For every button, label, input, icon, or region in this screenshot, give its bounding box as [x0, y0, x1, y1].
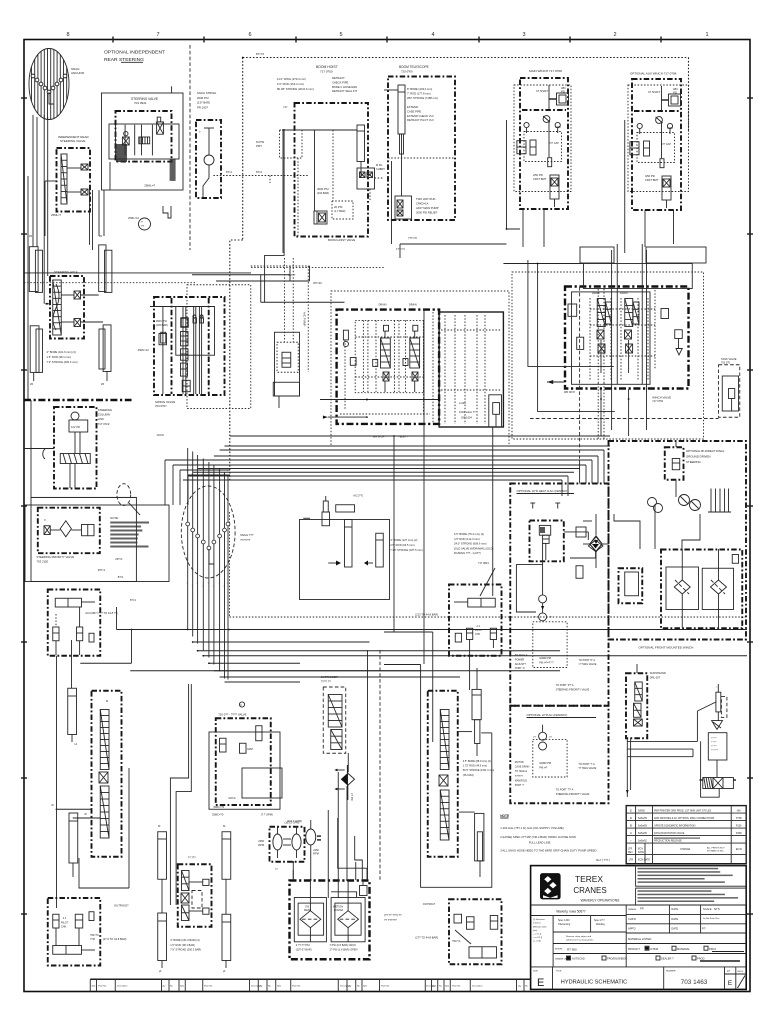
svg-text:Ref: [ ??? ]: Ref: [ ??? ] [596, 858, 610, 862]
svg-text:Sym: Sym [277, 986, 281, 988]
svg-text:MODEL: MODEL [555, 949, 564, 951]
front winch divider [609, 639, 747, 641]
aux winch dotted envelope [628, 85, 689, 192]
svg-text:2 [HOSE] SPEC 2?? MP (?40.2: 2 [HOSE] SPEC 2?? MP (?40.2 BAR) ORIFIC … [500, 835, 576, 839]
optional hyd heat ac envelope [510, 484, 608, 706]
holding valve column [92, 691, 122, 857]
svg-text:BY HAND IS INC: BY HAND IS INC [707, 850, 724, 853]
svg-text:717 0?60: 717 0?60 [652, 399, 663, 403]
svg-text:PROJ: PROJ [709, 947, 717, 951]
boom hoist cylinder [280, 125, 365, 253]
heater T symbols [530, 503, 560, 509]
svg-text:2: 2 [613, 32, 616, 38]
winch valve bank box [565, 264, 692, 389]
telescope lock valve [395, 196, 412, 219]
svg-text:703 0?5: 703 0?5 [721, 362, 731, 365]
wire steering cylinder feed lines [28, 115, 48, 400]
svg-text:4" BORE (101.6 mm) (2): 4" BORE (101.6 mm) (2) [47, 350, 76, 354]
svg-text:Spec 27.?: Spec 27.? [594, 919, 605, 922]
svg-text:LTR: LTR [628, 849, 633, 851]
svg-text:A: A [630, 831, 632, 835]
svg-text:?: ? [218, 583, 219, 585]
note rows block [110, 516, 149, 561]
svg-text:EXTEND CHECK VLV: EXTEND CHECK VLV [407, 114, 434, 118]
accumulator charge valve group [48, 590, 101, 656]
svg-text:Sym: Sym [363, 986, 367, 988]
svg-text:717 0821: 717 0821 [478, 561, 489, 565]
boom telescope label [399, 65, 429, 74]
svg-text:DEALER ?: DEALER ? [661, 957, 674, 961]
front winch wires [626, 702, 719, 797]
svg-text:(35-0164): (35-0164) [463, 774, 474, 777]
zone numbers top [66, 32, 708, 38]
wire bundle turnouts lower [188, 630, 747, 683]
svg-text:PM: #?: PM: #? [539, 766, 548, 769]
title block left info grid [531, 916, 747, 967]
title OPTIONAL INDEPENDENT REAR STEERING [104, 50, 165, 64]
svg-text:MANIFOLD: MANIFOLD [515, 779, 528, 782]
svg-text:ADJ? MAIN PUMP: ADJ? MAIN PUMP [416, 206, 439, 210]
svg-text:7.38" STROKE (187.5 mm): 7.38" STROKE (187.5 mm) [390, 548, 423, 552]
rear lockout labels [90, 904, 129, 942]
steering column link group [54, 407, 97, 489]
svg-text:DATE: DATE [671, 917, 678, 921]
svg-text:[OLD VALVE W/DRAWAL] (OLD): [OLD VALVE W/DRAWAL] (OLD) [454, 546, 494, 550]
wire front stabilizer [421, 665, 492, 888]
telescope cylinder [384, 85, 405, 196]
svg-text:5: 5 [339, 32, 342, 38]
svg-text:P126: P126 [736, 824, 742, 827]
front winch control valve [626, 664, 647, 738]
svg-text:NTS: NTS [714, 907, 720, 911]
hyd ac orifice dotted box [533, 739, 567, 777]
svg-text:+- x 0.01 []: +- x 0.01 [] [533, 937, 542, 939]
boom hoist group envelope [295, 103, 369, 237]
svg-text:77M: 77M [90, 938, 95, 941]
svg-text:80.38" STROKE (2041.6 mm): 80.38" STROKE (2041.6 mm) [277, 87, 314, 91]
svg-text:5w5w92: 5w5w92 [638, 839, 647, 842]
svg-text:1?T=?1: 1?T=?1 [396, 247, 405, 251]
svg-text:No.: No. [170, 986, 174, 988]
svg-text:KOMNA: KOMNA [334, 909, 344, 912]
svg-text:I/R: I/R [101, 383, 104, 386]
svg-text:(10?-2? BAR): (10?-2? BAR) [296, 948, 312, 952]
svg-text:RAISING ??? - (LAT?): RAISING ??? - (LAT?) [454, 551, 481, 555]
winch valve section 1 [597, 299, 612, 374]
svg-text:Plate No.: Plate No. [292, 985, 301, 988]
svg-text:?: ? [192, 474, 193, 476]
svg-text:?: ? [208, 471, 209, 473]
winch bank internal risers [580, 244, 655, 460]
svg-text:No.: No. [357, 986, 361, 988]
svg-text:1 200 GAL (757.1 ltr) GAL [O: 1 200 GAL (757.1 ltr) GAL [OIL SUPPLY VO… [500, 826, 563, 830]
dashed separator line left section [189, 45, 191, 250]
svg-text:?: ? [213, 474, 214, 476]
svg-text:NOTE:: NOTE: [110, 516, 119, 520]
svg-text:REV: REV [628, 852, 633, 854]
svg-text:RT630: RT630 [651, 947, 659, 951]
svg-text:MATERIAL LISTED: MATERIAL LISTED [628, 937, 651, 941]
svg-text:PER PRINTER ORD PROD. LST NNN: PER PRINTER ORD PROD. LST NNN UNIT STYLE… [654, 809, 712, 812]
svg-text:C.BR: C.BR [667, 127, 673, 130]
hydraulic tank envelope [290, 881, 370, 960]
svg-text:DATE: DATE [638, 851, 644, 854]
svg-text:PILOT: PILOT [61, 922, 69, 925]
svg-text:NOTE: NOTE [500, 814, 509, 818]
svg-text:ALL PRINTS NOT: ALL PRINTS NOT [707, 847, 725, 850]
svg-text:TO TELE &: TO TELE & [515, 654, 528, 657]
svg-text:CASE DRAIN: CASE DRAIN [515, 766, 530, 769]
svg-text:STEERING AXLE: STEERING AXLE [54, 270, 78, 274]
svg-text:APP'D: APP'D [628, 927, 636, 931]
heat ac supply valve [530, 521, 564, 562]
pilot port labels [213, 140, 309, 183]
svg-text:N/A: N/A [737, 809, 741, 812]
accumulator snag string [196, 120, 221, 198]
svg-text:Waverly, Iowa 50677: Waverly, Iowa 50677 [556, 910, 586, 914]
svg-text:CHECK PIPE: CHECK PIPE [332, 80, 348, 84]
beam lock valve group [178, 856, 212, 927]
svg-text:TO TELE &: TO TELE & [515, 770, 528, 773]
svg-text:12V OR: 12V OR [71, 426, 80, 429]
dashed tank riser [379, 650, 381, 881]
svg-text:BORE C HOSE END: BORE C HOSE END [332, 85, 357, 89]
heat circulation circles [516, 543, 552, 621]
svg-text:7 PSI (0.5 BAR) CRCK: 7 PSI (0.5 BAR) CRCK [330, 943, 357, 947]
svg-text:Description: Description [472, 985, 483, 988]
svg-text:24.0" STROKE (609.6 mm): 24.0" STROKE (609.6 mm) [454, 542, 487, 546]
pilot line trunk dashed [230, 52, 689, 480]
steering valve feed risers [90, 190, 93, 250]
wire riser left group [99, 162, 110, 236]
svg-text:717 0722: 717 0722 [98, 422, 110, 426]
svg-text:1500 PSI: 1500 PSI [156, 319, 167, 323]
tank inlet staircase wires [317, 818, 367, 898]
svg-text:LTR: LTR [629, 859, 634, 862]
svg-text:ECN: ECN [638, 849, 643, 851]
inlet compensator [343, 330, 408, 366]
svg-text:DRAIN: DRAIN [409, 304, 417, 307]
svg-text:P?: P? [702, 927, 706, 931]
svg-text:4/50 PSI: 4/50 PSI [645, 174, 655, 178]
svg-text:=? SWG VALVE: =? SWG VALVE [579, 663, 597, 666]
svg-text:BOOM HOIST: BOOM HOIST [316, 65, 338, 69]
ac pump small fitting [323, 494, 363, 513]
svg-text:7" ROD (177.8 mm): 7" ROD (177.8 mm) [407, 92, 431, 96]
steering cylinder left upper [29, 235, 43, 292]
front winch directional spool [700, 778, 737, 789]
svg-text:[CHG] BI-ROTATION VALVE: [CHG] BI-ROTATION VALVE [654, 832, 685, 835]
svg-text:?: ? [227, 583, 228, 585]
svg-text:CHK: CHK [475, 633, 481, 636]
gauge ellipse dashed [117, 484, 140, 515]
svg-text:I/R: I/R [99, 235, 102, 238]
pilot dotted risers [285, 258, 323, 372]
hyd ac motor case text [515, 761, 597, 796]
wire steering column feeds [24, 400, 136, 497]
front axle lockout lower group [415, 899, 501, 964]
svg-text:A: A [240, 703, 242, 707]
svg-text:D: D [630, 816, 632, 820]
main outlet dotted lines [441, 315, 501, 424]
svg-text:Sym: Sym [92, 986, 96, 988]
svg-text:OPTIONAL INDEPENDENT: OPTIONAL INDEPENDENT [104, 50, 165, 56]
boom hoist label [316, 65, 338, 74]
main valve labels [373, 304, 476, 439]
winch valve section 2 [625, 299, 640, 374]
svg-text:8: 8 [66, 32, 69, 38]
svg-text:AUTOCAD: AUTOCAD [572, 957, 585, 961]
main control valve bank [337, 310, 504, 427]
title block legal text [636, 866, 747, 905]
swing valve dotted envelope [187, 285, 251, 409]
svg-text:NUMBER: NUMBER [666, 971, 676, 973]
svg-text:Millimeter within: Millimeter within [533, 925, 546, 928]
bi-directional steer valve [665, 440, 684, 497]
svg-text:(2) Dimension: (2) Dimension [533, 919, 545, 921]
oil cooler bypass block [357, 163, 385, 200]
svg-text:200 1004: 200 1004 [461, 416, 472, 420]
winch return wires [400, 120, 706, 263]
svg-text:6: 6 [248, 32, 251, 38]
svg-text:PRODUCT: PRODUCT [628, 948, 640, 951]
svg-text:E: E [630, 808, 632, 812]
winch inlet block [661, 309, 682, 356]
svg-text:??-???: ??-??? [711, 750, 719, 752]
svg-text:ACCUM? (??? TO 44.8 ??): ACCUM? (??? TO 44.8 ??) [85, 611, 118, 615]
svg-text:WR WCH: WR WCH [373, 435, 385, 439]
svg-text:2 ??-?? PSI: 2 ??-?? PSI [296, 943, 310, 947]
svg-text:DRAIN: DRAIN [620, 292, 628, 295]
svg-text:ADD WINCHES & AC OPTIONS, MISC: ADD WINCHES & AC OPTIONS, MISC CORRECTIO… [654, 817, 715, 820]
svg-text:[mm]: [mm] [533, 930, 538, 932]
svg-text:DRAWN ON: DRAWN ON [555, 958, 567, 961]
svg-text:4/50 PSI: 4/50 PSI [533, 173, 543, 177]
svg-text:E: E [728, 980, 732, 987]
steering cylinder right upper [99, 235, 112, 292]
svg-text:4" BORE (101.6 BAR) (4): 4" BORE (101.6 BAR) (4) [170, 938, 199, 942]
svg-text:MAIN WINCH 717 0?08: MAIN WINCH 717 0?08 [529, 69, 562, 73]
svg-text:PR: PR [640, 907, 644, 911]
svg-text:Plate No.: Plate No. [204, 985, 213, 988]
snag anchor circle (hatched) [29, 49, 85, 120]
front stabilizer valve column [428, 691, 458, 857]
svg-text:CRKT BMT: CRKT BMT [533, 177, 547, 181]
svg-text:??????: ?????? [515, 775, 524, 778]
heat ac check diamond [564, 532, 603, 558]
wire bundle right drops [562, 450, 604, 496]
svg-text:59.5" STROKE (1511.3 mm): 59.5" STROKE (1511.3 mm) [463, 769, 495, 772]
wire outrigger interconnect [51, 768, 129, 888]
svg-text:283" STROKE (7188 mm): 283" STROKE (7188 mm) [407, 96, 438, 100]
svg-text:STEERING PRIORITY VALVE: STEERING PRIORITY VALVE [556, 689, 590, 692]
svg-text:DATE: DATE [671, 907, 678, 911]
pressure gauge circle [128, 216, 151, 230]
svg-text:?: ? [196, 471, 197, 473]
main valve bank wires [320, 399, 440, 419]
svg-text:OUTRIGGER: OUTRIGGER [321, 675, 338, 679]
svg-text:PR 100?: PR 100? [197, 105, 208, 109]
svg-text:EXTEND:: EXTEND: [407, 105, 419, 109]
terex logo [540, 873, 561, 899]
svg-text:CRKD=1A: CRKD=1A [416, 202, 429, 206]
heat ac port text [515, 654, 597, 692]
svg-text:OPTIONAL HYD AC (FENWAY): OPTIONAL HYD AC (FENWAY) [527, 713, 568, 717]
svg-text:MOTOR: MOTOR [515, 761, 524, 764]
svg-text:MATERIAL: MATERIAL [677, 947, 690, 951]
svg-text:PORT 'A': PORT 'A' [515, 667, 526, 670]
return dashed line [530, 418, 719, 420]
title bottom row [533, 967, 746, 990]
svg-text:8T=4: 8T=4 [256, 170, 263, 174]
axle lockout leader [415, 568, 495, 617]
front winch motor box [708, 733, 727, 760]
svg-text:M FIL: M FIL [376, 163, 383, 167]
svg-text:splinter burrs & sharp plates: splinter burrs & sharp plates [566, 939, 594, 942]
svg-text:5/9/95: 5/9/95 [638, 809, 645, 812]
independent rear steering valve [45, 135, 90, 236]
svg-text:2000 PSI RELIEF: 2000 PSI RELIEF [416, 211, 438, 215]
svg-text:2? PSI (1.6 BAR) OPEN: 2? PSI (1.6 BAR) OPEN [330, 948, 358, 952]
svg-text:?: ? [192, 586, 193, 588]
filter group envelope [661, 550, 742, 629]
main valve section 2 [410, 325, 420, 392]
svg-text:P?08: P?08 [736, 817, 742, 820]
bi-directional steering envelope [609, 441, 747, 640]
svg-text:OPTIONAL HYD HEAT & AC (FENWAY: OPTIONAL HYD HEAT & AC (FENWAY) [517, 489, 569, 493]
svg-text:???????: ??????? [240, 538, 251, 542]
svg-text:6.0" ROD (152.4 mm): 6.0" ROD (152.4 mm) [277, 82, 304, 86]
svg-text:TO PORT '?' A: TO PORT '?' A [579, 763, 596, 766]
filter box left [666, 549, 699, 628]
check valve bold [334, 765, 354, 801]
svg-text:100w valve ??: 100w valve ?? [459, 410, 476, 414]
svg-text:25ML=?: 25ML=? [144, 184, 155, 188]
aux pump valve group [209, 718, 282, 809]
filter check diamond [590, 537, 602, 551]
main control valve dotted envelope [331, 291, 509, 446]
svg-text:UPDATE SCHEMATIC INFORMATION: UPDATE SCHEMATIC INFORMATION [654, 824, 696, 827]
svg-text:7.9" STROKE (200.3 BAR): 7.9" STROKE (200.3 BAR) [170, 948, 201, 952]
outrigger jack cylinder D [222, 914, 231, 973]
svg-text:?? ???: ?? ??? [188, 856, 196, 860]
svg-text:GROUND DRIVEN: GROUND DRIVEN [686, 454, 711, 458]
svg-text:WR WCH: WR WCH [564, 391, 575, 394]
outrigger stabilizer cylinder upper [68, 640, 78, 746]
svg-text:PRO/ENGINEER: PRO/ENGINEER [607, 957, 627, 961]
svg-text:ADJUST?: ADJUST? [515, 663, 527, 666]
steering valve dashed envelope [116, 86, 176, 187]
svg-text:TO PORT '??' A: TO PORT '??' A [556, 789, 574, 792]
svg-text:CT SHAFT: CT SHAFT [648, 91, 661, 94]
main winch group [517, 78, 569, 209]
svg-text:PSI: PSI [561, 91, 565, 94]
steer small blocks [576, 527, 586, 578]
svg-text:TO PORT 'P?' A: TO PORT 'P?' A [556, 684, 574, 687]
svg-text:POWER: POWER [515, 658, 525, 661]
svg-text:?: ? [218, 471, 219, 473]
boom telescope envelope [388, 77, 455, 221]
svg-text:WINCH VALVE: WINCH VALVE [652, 396, 671, 400]
svg-text:8?=4: 8?=4 [130, 598, 136, 602]
hyd ac compressor circles [533, 725, 552, 750]
svg-text:FULL LEAD LINE: FULL LEAD LINE [529, 841, 551, 845]
svg-text:CHK'D: CHK'D [628, 917, 636, 921]
svg-text:?? ??: ?? ?? [711, 738, 717, 740]
steering valve assembly box [102, 93, 184, 190]
wire distribution bundle upper [183, 436, 610, 480]
svg-text:COLUMN: COLUMN [98, 413, 110, 417]
svg-text:703 0?07: 703 0?07 [155, 404, 167, 408]
svg-text:B: B [630, 823, 632, 827]
svg-text:SUNSTRAND: SUNSTRAND [650, 671, 666, 675]
svg-text:?? ??????: ?? ?????? [384, 918, 397, 922]
main winch dotted envelope [514, 85, 571, 192]
revision table [626, 806, 746, 864]
parts strip table [90, 979, 530, 991]
note line 2 [500, 835, 576, 845]
svg-text:8" BORE (203.2 mm): 8" BORE (203.2 mm) [407, 87, 432, 91]
svg-text:(137 BAR): (137 BAR) [197, 101, 210, 105]
steer gauge circles [648, 495, 701, 513]
svg-text:E: E [537, 977, 544, 989]
winch valve dotted envelope [512, 272, 704, 439]
suction manifold box [300, 512, 390, 600]
swing valve label [138, 348, 175, 437]
steering cylinder left lower [30, 326, 43, 386]
tandem pump group [270, 826, 305, 862]
svg-text:CASE PIPE: CASE PIPE [407, 109, 421, 113]
svg-text:Sym: Sym [445, 986, 449, 988]
svg-text:(213 TO 44.8 BAR): (213 TO 44.8 BAR) [415, 613, 438, 617]
wire filter feeds [583, 505, 700, 568]
svg-text:DATE: DATE [671, 927, 678, 931]
wire bundle risers center [188, 448, 228, 680]
svg-text:HYDRAULIC SCHEMATIC: HYDRAULIC SCHEMATIC [561, 980, 627, 986]
svg-text:TO PORT 'P' A: TO PORT 'P' A [579, 659, 596, 662]
svg-text:RETRACT PILOT VLV: RETRACT PILOT VLV [407, 118, 434, 122]
svg-text:X: X [44, 518, 46, 522]
outrigger cylinder lower [69, 813, 78, 877]
svg-text:No.: No. [439, 986, 443, 988]
svg-text:PORT '?': PORT '?' [515, 784, 525, 787]
outrigger jack cylinder B [158, 913, 167, 973]
svg-text:BOOM HOIST VALVE: BOOM HOIST VALVE [328, 238, 355, 242]
svg-text:2000 PSI: 2000 PSI [197, 96, 209, 100]
winch bank labels [564, 292, 671, 403]
svg-text:?: ? [202, 586, 203, 588]
filter bypass block [619, 555, 739, 604]
svg-text:No.: No. [268, 986, 272, 988]
waverly address row [531, 905, 747, 916]
svg-text:M: M [106, 699, 108, 703]
boom hoist pilot text [283, 105, 329, 195]
svg-text:DRAIN: DRAIN [379, 304, 387, 307]
svg-text:STEERING: STEERING [98, 408, 112, 412]
svg-text:3: 3 [522, 32, 525, 38]
svg-text:ABC: ABC [673, 88, 678, 91]
svg-text:5w5w95: 5w5w95 [638, 817, 647, 820]
svg-text:(?? ?? ???) ??: (?? ?? ???) ?? [384, 913, 402, 917]
svg-text:?: ? [223, 474, 224, 476]
svg-text:PM: #?=?? ?: PM: #?=?? ? [539, 661, 554, 664]
svg-text:STEERING: STEERING [686, 460, 702, 464]
telescope divider [388, 157, 455, 159]
svg-text:?: ? [196, 583, 197, 585]
svg-text:(1.7 BAR): (1.7 BAR) [334, 209, 346, 213]
svg-text:RETRACT SEAL KIT: RETRACT SEAL KIT [332, 89, 357, 93]
wire jack cylinder feeds [170, 684, 191, 905]
